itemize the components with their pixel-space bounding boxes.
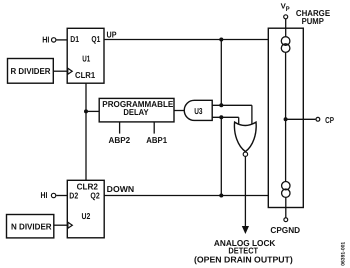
wire U3 output to delay block xyxy=(174,110,185,112)
svg-text:ABP2: ABP2 xyxy=(109,135,131,145)
stub ABP2 xyxy=(119,122,121,134)
wire UP: Q1 to charge pump xyxy=(104,39,268,41)
terminal CPGND xyxy=(284,218,288,222)
output bubble of nor-gate xyxy=(243,152,247,156)
svg-text:PUMP: PUMP xyxy=(302,16,325,26)
svg-text:U3: U3 xyxy=(194,106,202,116)
flip-flop U1 box xyxy=(67,28,104,83)
wire left input down to NOR gate xyxy=(238,117,240,123)
svg-text:ABP1: ABP1 xyxy=(146,135,167,145)
svg-text:D2: D2 xyxy=(69,191,78,201)
svg-text:CPGND: CPGND xyxy=(270,225,300,235)
junction on CLR line xyxy=(84,109,88,113)
junction on DOWN line xyxy=(219,194,223,198)
svg-text:U2: U2 xyxy=(82,211,91,221)
arrowhead analog lock detect xyxy=(242,226,249,234)
svg-text:R DIVIDER: R DIVIDER xyxy=(11,66,52,76)
R DIVIDER block xyxy=(8,59,54,84)
junction on UP line xyxy=(219,38,223,42)
PROGRAMMABLE DELAY block xyxy=(99,98,174,122)
wire R DIVIDER to U1 clock xyxy=(53,70,67,72)
and-gate U3 (mirrored, output left) xyxy=(184,100,212,120)
clock input triangle U2 xyxy=(68,222,72,228)
svg-text:HI: HI xyxy=(42,35,49,45)
svg-text:(OPEN DRAIN OUTPUT): (OPEN DRAIN OUTPUT) xyxy=(194,255,293,265)
svg-text:N DIVIDER: N DIVIDER xyxy=(11,222,52,232)
current source top (pump up) xyxy=(281,37,290,46)
wire HI to D2 xyxy=(56,195,67,197)
svg-text:DOWN: DOWN xyxy=(107,184,135,194)
wire bottom source to CPGND xyxy=(285,197,287,217)
wire UP branch down to U3 input xyxy=(220,40,222,106)
clock input triangle U1 xyxy=(68,68,72,74)
wire U3 bottom input row xyxy=(212,116,239,118)
wire HI to D1 xyxy=(56,39,67,41)
svg-text:CP: CP xyxy=(325,115,334,125)
svg-text:Q1: Q1 xyxy=(91,34,100,44)
svg-text:UP: UP xyxy=(107,29,117,39)
current source bottom (pump down) xyxy=(282,182,290,190)
wire U3 top input row xyxy=(212,104,252,106)
wire top source to CP node xyxy=(285,53,287,182)
svg-text:CLR1: CLR1 xyxy=(75,70,95,80)
wire N DIVIDER to U2 clock xyxy=(54,224,68,226)
wire VP into charge pump xyxy=(285,19,287,37)
flip-flop U2 box xyxy=(67,180,104,238)
svg-text:DELAY: DELAY xyxy=(123,107,148,117)
svg-text:D1: D1 xyxy=(70,34,79,44)
wire CP node to CP terminal xyxy=(286,118,316,120)
N DIVIDER block xyxy=(7,215,54,238)
wire right input down to NOR gate xyxy=(251,105,253,124)
wire CLR junction to delay block xyxy=(86,110,99,112)
wire CLR vertical U1 to U2 xyxy=(85,83,87,180)
svg-text:HI: HI xyxy=(41,190,48,200)
terminal CP xyxy=(316,117,320,121)
svg-text:P: P xyxy=(286,6,290,13)
wire lock detect output xyxy=(244,157,246,227)
charge pump block xyxy=(268,28,303,207)
junction UP/U3 xyxy=(219,103,223,107)
wire DOWN branch up from DOWN line xyxy=(220,117,222,195)
svg-text:U1: U1 xyxy=(82,54,90,64)
svg-text:06391-001: 06391-001 xyxy=(341,242,347,266)
nor-gate (lock detect, pointing down) xyxy=(234,122,256,152)
stub ABP1 xyxy=(153,122,155,134)
wire DOWN: Q2 to charge pump xyxy=(104,195,268,197)
svg-text:Q2: Q2 xyxy=(90,191,99,201)
junction DOWN/U3 xyxy=(219,115,223,119)
junction CP node xyxy=(284,117,288,121)
